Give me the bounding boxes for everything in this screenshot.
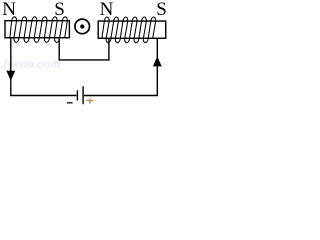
left coil core (iron bar) [5, 21, 69, 38]
battery positive plate (long) [82, 86, 84, 104]
current arrow (down) on left wire [6, 71, 15, 81]
svg-text:S: S [156, 0, 167, 20]
right coil winding L2 [101, 17, 156, 43]
wire: left vertical (coil to bottom rail) [10, 38, 12, 96]
battery negative plate (short) [76, 90, 78, 100]
label - (battery negative) [67, 102, 73, 104]
left coil winding L1 [10, 17, 68, 43]
wire: bottom rail left segment [10, 95, 76, 97]
field symbol: dot in circle (B out of page) [75, 19, 90, 34]
wire: middle U connector between coils [59, 38, 109, 60]
label + (battery positive) [89, 97, 91, 100]
wire: right vertical (coil to bottom rail) [156, 38, 158, 95]
current arrow (up) on right wire [153, 56, 162, 66]
right coil core (iron bar) [98, 21, 166, 38]
wire: bottom rail right segment [84, 95, 158, 97]
svg-text:Jyeoo.com: Jyeoo.com [1, 57, 60, 72]
